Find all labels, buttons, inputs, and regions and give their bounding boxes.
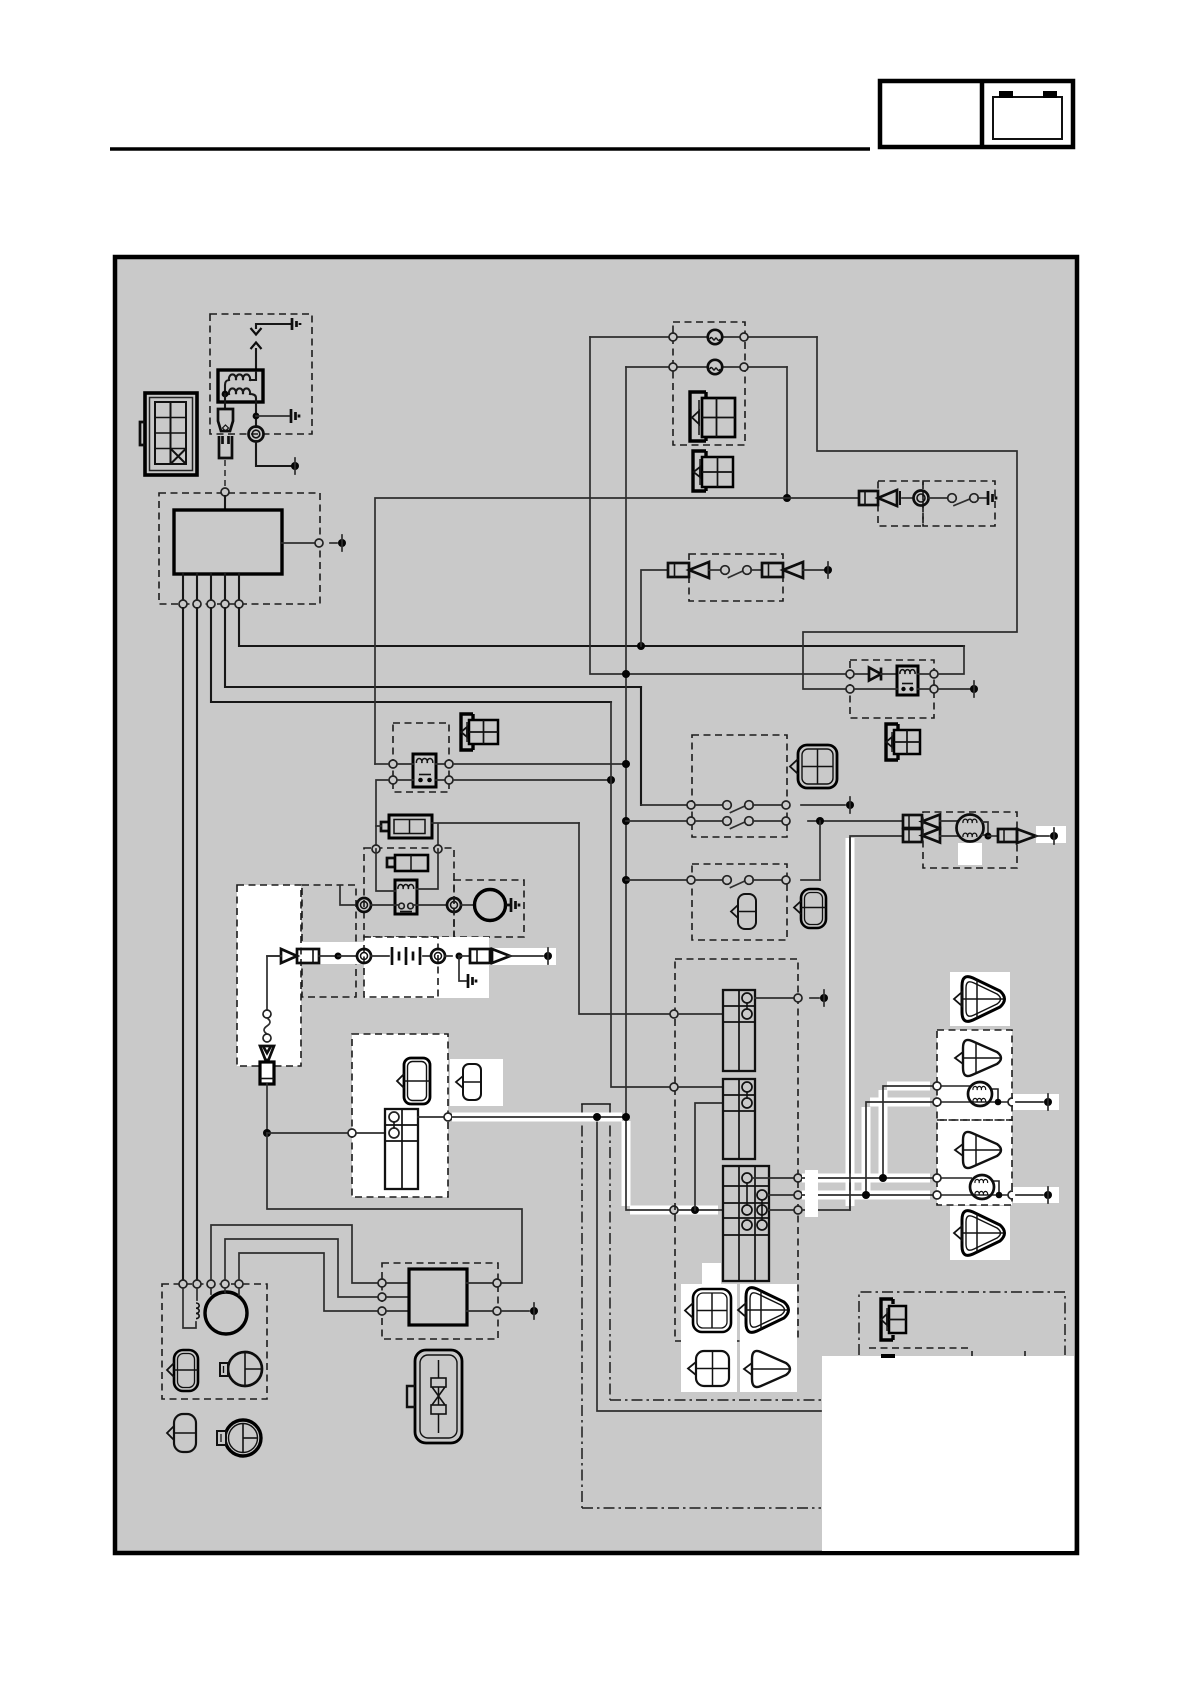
terminal dot xyxy=(291,462,299,470)
brake switch dashed box xyxy=(689,554,783,601)
pin xyxy=(669,363,677,371)
wire: fuse output xyxy=(432,823,579,845)
wire: coil HT to spark gap and ground xyxy=(256,324,290,370)
pin xyxy=(687,876,695,884)
battery cells xyxy=(392,947,420,965)
horn symbol xyxy=(878,490,897,506)
connector: triangle coupler T1 xyxy=(954,977,1005,1022)
fuse holder upper xyxy=(218,409,233,431)
relay: starter relay xyxy=(395,880,417,914)
white: handle conn patch right xyxy=(740,1284,797,1392)
wire: magneto to rectifier 1 xyxy=(211,1225,378,1283)
wire: magneto to rectifier 3 xyxy=(239,1253,378,1311)
pin xyxy=(782,817,790,825)
coil primary winding xyxy=(225,372,256,392)
handlebar switch dashed box xyxy=(675,959,798,1341)
wire xyxy=(902,497,913,499)
junction: coil common xyxy=(222,391,229,398)
main fuse xyxy=(381,815,432,838)
wire: CDI lead 5 xyxy=(239,608,964,646)
wire xyxy=(678,1013,723,1015)
diode D1 xyxy=(869,668,881,681)
terminal dot xyxy=(820,994,828,1002)
coil secondary winding xyxy=(225,388,256,402)
wire: flasher out to lamp2 vertical xyxy=(453,763,626,765)
wire xyxy=(881,673,897,675)
wire xyxy=(371,955,389,957)
horn switch xyxy=(948,494,957,503)
connector: oval coupler right xyxy=(794,889,826,928)
wire: fuse feed to handlebar xyxy=(579,823,670,1014)
white: main switch box xyxy=(352,1034,448,1197)
wire xyxy=(751,569,762,571)
connector: oval coupler magneto xyxy=(167,1350,198,1391)
wire: coil secondary to plug cap xyxy=(255,402,257,427)
white: flasher box1 xyxy=(937,1030,1012,1120)
wire: plug lead in white box xyxy=(267,956,281,1010)
white: coupler B patch xyxy=(450,1059,503,1106)
wire xyxy=(752,1178,794,1210)
white: handle conn patch left xyxy=(681,1284,737,1392)
terminal dot xyxy=(824,566,832,574)
ignition coil dashed box xyxy=(210,314,312,434)
pin xyxy=(389,760,397,768)
pins xyxy=(493,1279,501,1287)
ring terminal xyxy=(357,949,371,963)
wire: row2-row3 link xyxy=(819,821,821,880)
pins: flasher box2 xyxy=(933,1174,941,1182)
bullet connector xyxy=(689,562,709,578)
junction xyxy=(607,776,615,784)
junction xyxy=(879,1174,887,1182)
connector: 4P coupler below xyxy=(693,451,733,491)
pin xyxy=(687,817,695,825)
fuse: main lead xyxy=(470,949,490,963)
switch block B xyxy=(723,1079,755,1159)
wire: turn signal feed upper xyxy=(802,1086,933,1178)
wire xyxy=(418,1116,444,1118)
white: flasher box2 xyxy=(937,1120,1012,1205)
CDI bottom leads xyxy=(183,574,239,600)
wire: lamp2 drop to horn line xyxy=(786,367,788,498)
wire xyxy=(501,1310,529,1312)
wire xyxy=(371,904,447,906)
wire xyxy=(319,955,334,957)
connector: oval coupler in lower box xyxy=(731,894,756,929)
pin xyxy=(389,776,397,784)
meter M2 xyxy=(217,1420,261,1456)
lighting fuse lower xyxy=(903,829,922,842)
wire: ring to frame terminal xyxy=(256,441,292,466)
magneto lighting coil xyxy=(940,815,984,842)
white: flasher conn patch bottom xyxy=(950,1206,1010,1260)
casing + wire right xyxy=(1013,1187,1059,1203)
wire xyxy=(1036,835,1049,837)
bullet connector xyxy=(922,829,940,843)
junction: CDI lead5 brake tap xyxy=(637,642,645,650)
wire: CDI lead 1 to magneto xyxy=(182,608,184,1284)
wire: flasher out to lead3 vertical xyxy=(453,779,611,781)
wire: flasher lower feed xyxy=(376,780,389,826)
battery dashed box xyxy=(364,937,438,997)
brake switch contacts xyxy=(721,566,730,575)
pins: flasher box1 xyxy=(933,1082,941,1090)
pin xyxy=(930,670,938,678)
wire xyxy=(267,955,281,957)
switch row3 xyxy=(695,879,723,881)
pin xyxy=(669,333,677,341)
wire: CDI lead 4 xyxy=(225,608,641,687)
pin xyxy=(1008,1098,1016,1106)
wire: main switch ground branch xyxy=(597,1117,821,1411)
wire xyxy=(338,955,357,957)
wire xyxy=(801,804,845,806)
pin xyxy=(846,670,854,678)
rectifier dashed box xyxy=(382,1263,498,1339)
wire: magneto to rectifier 2 xyxy=(225,1239,378,1297)
junction xyxy=(335,953,342,960)
pin xyxy=(782,876,790,884)
stub: masked box top xyxy=(881,1354,895,1358)
pins: CDI bottom xyxy=(179,600,187,608)
ground G1 xyxy=(292,318,300,330)
wire: coil common down xyxy=(224,394,226,409)
bullet connector xyxy=(1017,829,1036,843)
terminal dot xyxy=(1050,832,1058,840)
wire xyxy=(356,1132,385,1134)
pin xyxy=(445,760,453,768)
pin xyxy=(263,1034,271,1042)
bullet connector xyxy=(922,815,940,829)
terminal dot xyxy=(846,801,854,809)
switch row2 xyxy=(695,820,723,822)
flasher relay dashed box xyxy=(393,723,449,792)
junction: battery minus xyxy=(456,953,463,960)
ring terminal right xyxy=(447,898,461,912)
wire xyxy=(508,955,543,957)
connector: CDI coupler bottom xyxy=(407,1350,462,1443)
pin xyxy=(263,1010,271,1018)
fuse: brake left xyxy=(668,563,689,577)
terminal dot xyxy=(1044,1098,1052,1106)
pin xyxy=(740,363,748,371)
wire: bulb1 circuit xyxy=(941,1086,1008,1102)
wire xyxy=(810,997,819,999)
wire xyxy=(709,569,721,571)
wire: lamp1 loop to relay contact xyxy=(803,337,1017,689)
junction: horn line xyxy=(783,494,791,502)
wire xyxy=(459,955,470,957)
wire: to terminal xyxy=(330,542,337,544)
pin xyxy=(794,1174,802,1182)
connector: triangle coupler single xyxy=(744,1351,790,1387)
wires in xyxy=(386,1283,409,1311)
wire: flasher row1 xyxy=(397,763,445,765)
wire: magneto ground lead black over xyxy=(849,838,851,1210)
ring terminal xyxy=(431,949,445,963)
wire xyxy=(678,1086,723,1088)
junction xyxy=(593,1113,601,1121)
pin xyxy=(782,801,790,809)
lamp L1 xyxy=(708,330,722,344)
connector: coupler B xyxy=(456,1064,481,1100)
battery icon xyxy=(993,91,1062,139)
terminal dot xyxy=(530,1307,538,1315)
bullet connector xyxy=(281,949,297,963)
pin xyxy=(445,776,453,784)
wire: brake switch drop xyxy=(641,570,668,646)
wire: bulb2 circuit xyxy=(941,1178,1008,1195)
wire: relay coil feeds xyxy=(376,849,438,891)
pin xyxy=(687,801,695,809)
linkage dash-dot right xyxy=(609,1104,611,1400)
wire: row2 to lighting fuse xyxy=(808,820,903,822)
wire: turn signal feed lower xyxy=(802,1102,933,1195)
junction: secondary ground tap xyxy=(253,413,260,420)
connector: triangle coupler T2 xyxy=(955,1040,1001,1076)
pin xyxy=(348,1129,356,1137)
diagram panel xyxy=(115,257,1077,1553)
pin xyxy=(740,333,748,341)
handle switch right dashed box xyxy=(692,735,787,837)
pin: CDI HT input xyxy=(221,488,229,496)
wire xyxy=(988,835,998,837)
junction: row3 feed xyxy=(622,876,630,884)
terminal dot xyxy=(544,952,552,960)
wire xyxy=(854,688,897,690)
lamp L2 xyxy=(708,360,722,374)
wire: flasher row2 xyxy=(397,779,445,781)
wire: engine stop link xyxy=(695,1103,723,1210)
wire: magneto lower lead xyxy=(802,836,903,1210)
junction: row2 feed xyxy=(622,817,630,825)
junction xyxy=(995,1099,1002,1106)
gap at coupler edge xyxy=(805,1170,818,1217)
wire: lamp2 row xyxy=(626,366,787,368)
pin xyxy=(930,685,938,693)
wires out xyxy=(467,1283,493,1311)
junction: relay wire xyxy=(622,670,630,678)
casing: magneto ground lead xyxy=(846,838,855,1206)
junction xyxy=(996,1192,1003,1199)
pickup coil xyxy=(183,1288,197,1328)
wire to terminal xyxy=(803,569,824,571)
wire: lamp1 row xyxy=(590,336,817,338)
connector: main switch coupler xyxy=(140,393,197,475)
wire xyxy=(929,497,948,499)
casing: main switch feed xyxy=(452,1117,718,1210)
main switch dashed box xyxy=(352,1034,448,1197)
pin xyxy=(846,685,854,693)
terminal dot xyxy=(338,539,346,547)
diode relay dashed box xyxy=(850,660,934,718)
stub dashes xyxy=(972,1351,1025,1356)
wire: linkage out lower xyxy=(610,1399,821,1401)
magneto dashed box xyxy=(923,812,1017,868)
magneto rotor xyxy=(205,1292,247,1334)
handle switch lower dashed box xyxy=(692,864,787,940)
wire xyxy=(461,904,474,906)
bulb B2 xyxy=(970,1175,994,1199)
wire: row2 xyxy=(626,820,687,822)
relay: starting circuit cut-off xyxy=(897,666,918,695)
connector: triangle coupler T4 xyxy=(954,1211,1005,1256)
ground G2 xyxy=(291,409,299,423)
ground G4 xyxy=(506,898,520,912)
fuse: spare xyxy=(387,855,428,871)
junction xyxy=(622,760,630,768)
wire: relay out loop up xyxy=(918,646,964,674)
bullet connector xyxy=(783,562,803,578)
CDI dashed box xyxy=(159,493,320,604)
flasher relay unit xyxy=(413,754,436,787)
connector: triangle coupler T3 xyxy=(955,1132,1001,1168)
pins: magneto xyxy=(179,1280,187,1288)
wire: pin to CDI unit xyxy=(224,496,226,510)
starter motor M xyxy=(475,890,506,921)
terminal dot xyxy=(970,685,978,693)
junction: engine ground xyxy=(263,1129,271,1137)
spark plug dashed box xyxy=(237,885,301,1066)
magneto dashed box xyxy=(162,1284,267,1399)
fuse: ignition feed xyxy=(297,949,319,963)
ignition coil T1 xyxy=(218,370,263,402)
ring terminal left xyxy=(357,898,371,912)
pin: CDI output xyxy=(315,539,323,547)
connector: square coupler double xyxy=(685,1289,731,1332)
wire: into handle switch xyxy=(678,1209,723,1211)
diamond mark xyxy=(223,425,229,431)
junction xyxy=(622,1113,630,1121)
junction xyxy=(862,1191,870,1199)
starter relay dashed box xyxy=(364,848,454,937)
connector: coupler A xyxy=(397,1058,430,1104)
linkage dash-dot left xyxy=(581,1104,583,1508)
casing: turn wires xyxy=(802,1086,930,1195)
junction xyxy=(691,1206,699,1214)
connector: oval coupler small xyxy=(167,1414,196,1452)
wire: lead4 to switch row1 xyxy=(640,687,642,805)
white: battery band xyxy=(301,942,364,964)
switch block C xyxy=(723,1166,769,1281)
white: plug lead box xyxy=(237,885,301,1066)
ground G3 xyxy=(988,491,996,505)
pin xyxy=(434,845,442,853)
switch block A xyxy=(723,990,755,1071)
frame dashed box xyxy=(302,885,356,997)
CDI unit xyxy=(174,510,282,574)
connector: 4P coupler right xyxy=(886,724,920,760)
switch row1 xyxy=(695,804,723,806)
connector: square coupler single xyxy=(688,1351,729,1386)
plug cap ring xyxy=(249,427,264,442)
wire xyxy=(801,879,820,881)
connector: coupler square right xyxy=(790,745,837,788)
wire: CDI output right xyxy=(282,542,315,544)
flasher light dashed box 2 xyxy=(937,1120,1012,1205)
starter motor dashed box xyxy=(454,880,524,937)
connector: 4P coupler in lamp box xyxy=(690,392,735,441)
wire xyxy=(978,497,986,499)
casing + wire right xyxy=(1013,1094,1059,1110)
wire: tap to ground G2 xyxy=(256,415,289,417)
rectifier unit xyxy=(409,1269,467,1325)
bulb B1 xyxy=(968,1082,992,1106)
wire: horn line drop into flasher xyxy=(375,763,389,765)
stubs xyxy=(211,1288,239,1295)
connector: 4P coupler center xyxy=(461,714,498,750)
header box xyxy=(880,81,1073,147)
pin xyxy=(794,1206,802,1214)
fuse holder lower xyxy=(219,436,232,458)
wire: lamp2 feed vertical xyxy=(625,367,627,1117)
main switch block xyxy=(385,1109,418,1189)
pin xyxy=(372,845,380,853)
wire: lead3 into dimmer xyxy=(611,702,670,1087)
wire xyxy=(854,673,869,675)
junction xyxy=(816,817,824,825)
plug terminal funnel xyxy=(260,1046,274,1060)
fuse: horn xyxy=(859,491,878,505)
meter lamp dashed box xyxy=(673,322,745,445)
pin xyxy=(670,1206,678,1214)
horn switch dashed box xyxy=(923,481,995,526)
ground G5 xyxy=(468,974,476,988)
wire: battery ground xyxy=(459,956,466,981)
horn fuse dashed box xyxy=(878,481,923,526)
white: patch below coil xyxy=(958,843,982,865)
wire: plug to ground junction xyxy=(266,1084,268,1133)
wire: relay contact out xyxy=(918,688,970,690)
connector: coupler tail xyxy=(881,1299,906,1340)
wire: ground loop to rectifier xyxy=(267,1133,522,1283)
pin xyxy=(794,994,802,1002)
linkage bracket xyxy=(582,1103,610,1105)
wire: fuse left legs xyxy=(376,826,381,845)
bullet connector xyxy=(492,949,510,963)
pin xyxy=(1008,1191,1016,1199)
terminal dot xyxy=(1044,1191,1052,1199)
fuse: brake right xyxy=(762,563,783,577)
wire: linkage out bottom xyxy=(582,1507,821,1509)
horn H1 xyxy=(914,491,929,506)
wire: lamp1 feed vertical xyxy=(590,337,846,674)
flasher light dashed box 1 xyxy=(937,1030,1012,1120)
junction xyxy=(985,833,992,840)
white: flasher conn patch top xyxy=(950,972,1010,1026)
wire xyxy=(423,955,431,957)
wire: plug lead dashed xyxy=(224,460,226,488)
white: block C patch xyxy=(702,1263,721,1284)
spark gap xyxy=(251,328,262,349)
wire xyxy=(755,997,794,999)
lighting fuse upper xyxy=(903,815,922,828)
connector: triangle coupler double xyxy=(738,1288,789,1333)
wire: main switch feed xyxy=(452,1117,670,1210)
flexible lead xyxy=(264,1018,270,1034)
inner dashed line xyxy=(869,1347,970,1349)
white: bottom right mask xyxy=(822,1356,1074,1551)
tail dash-dot box xyxy=(859,1292,1065,1355)
pin xyxy=(444,1113,452,1121)
wire: fuse feed pin xyxy=(670,1010,678,1018)
spark plug body xyxy=(260,1062,274,1084)
wire: row3 xyxy=(626,879,687,881)
pins xyxy=(378,1279,386,1287)
wire: battery ring to frame xyxy=(340,886,357,905)
wire xyxy=(445,955,452,957)
fuse: lighting out xyxy=(998,829,1017,842)
